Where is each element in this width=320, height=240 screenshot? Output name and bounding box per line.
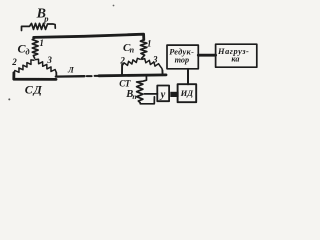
svg-text:ИД: ИД <box>180 88 195 98</box>
potentiometer Вп <box>137 76 155 104</box>
svg-text:ка: ка <box>231 55 239 64</box>
svg-text:СД: СД <box>25 82 43 96</box>
label Сп <box>123 42 135 55</box>
svg-text:тор: тор <box>175 55 189 64</box>
svg-text:р: р <box>43 14 48 24</box>
wire line Л (solid part) <box>56 75 85 78</box>
selsyn СД stator winding 3 (chain to lower-right) <box>35 59 56 72</box>
selsyn СТ stator winding 1 (vertical zigzag Сп) <box>140 40 146 59</box>
wire top bus <box>34 34 144 39</box>
svg-text:п: п <box>132 92 136 101</box>
resistor Вр <box>22 23 56 30</box>
svg-text:3: 3 <box>152 55 158 65</box>
svg-text:1: 1 <box>39 38 44 48</box>
junction winding3 to rail <box>55 72 57 76</box>
wire line Л (dashes) <box>87 75 99 77</box>
svg-text:Л: Л <box>67 65 75 75</box>
selsyn СТ stator winding 3 (chain down-right) <box>142 59 163 71</box>
label Сд <box>18 42 31 57</box>
shaft Редуктор to Нагрузка <box>198 54 215 57</box>
selsyn СД stator winding 2 (chain to lower-left) <box>14 60 34 74</box>
speck top-right <box>113 5 115 7</box>
svg-text:3: 3 <box>46 55 52 65</box>
wire Вп tap to У <box>144 93 157 95</box>
svg-text:1: 1 <box>147 39 152 49</box>
amplifier У box <box>157 86 169 102</box>
СТ terminal 2 riser <box>121 65 123 75</box>
speck bottom-left <box>8 98 10 100</box>
gearbox Редуктор box <box>167 45 198 69</box>
load Нагрузка box <box>216 44 257 67</box>
connector У to ИД <box>170 92 178 97</box>
label Вп <box>125 89 136 101</box>
svg-text:у: у <box>159 90 166 101</box>
shaft ИД to Редуктор <box>187 69 189 84</box>
svg-text:2: 2 <box>11 57 17 67</box>
bottom rail of СД and terminal riser <box>14 73 56 80</box>
selsyn СТ stator winding 2 (chain up-right) <box>123 58 141 65</box>
wire rail under СТ <box>99 74 166 78</box>
label Вр <box>36 7 49 24</box>
selsyn СД stator winding 1 (vertical zigzag) <box>32 38 38 59</box>
svg-text:п: п <box>130 45 135 54</box>
junction winding3 to rail <box>161 70 163 75</box>
motor ИД box <box>178 84 197 102</box>
svg-text:СТ: СТ <box>119 79 131 89</box>
